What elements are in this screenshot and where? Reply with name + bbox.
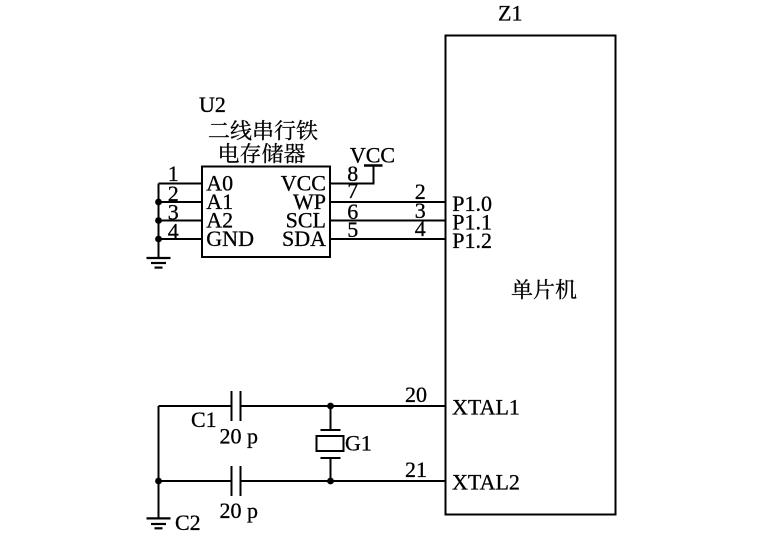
crystal G1 — [317, 430, 344, 458]
ground bottom left — [147, 518, 171, 528]
wire left vertical C1-C2 to ground — [158, 406, 160, 518]
svg-text:P1.2: P1.2 — [452, 228, 492, 253]
wire U2 pin1 A0 — [159, 183, 203, 185]
wire XTAL2 right segment — [242, 480, 446, 482]
svg-text:GND: GND — [206, 226, 254, 251]
junction XTAL1 / G1 — [327, 403, 334, 410]
capacitor C2 — [232, 466, 241, 496]
svg-text:20 p: 20 p — [220, 423, 259, 448]
junction pin3 bus — [155, 217, 162, 224]
VCC riser — [373, 166, 375, 185]
wire G1 top lead — [330, 406, 332, 430]
svg-text:4: 4 — [415, 216, 426, 241]
svg-text:5: 5 — [347, 217, 358, 242]
svg-text:21: 21 — [405, 457, 427, 482]
VCC bar — [364, 164, 383, 167]
wire XTAL2 left segment — [159, 480, 231, 482]
svg-text:SDA: SDA — [282, 226, 326, 251]
wire pin6 to P1.1 — [330, 220, 446, 222]
wire U2 pin8 to VCC — [330, 183, 374, 185]
junction C2 left / ground — [155, 478, 162, 485]
svg-text:4: 4 — [168, 219, 179, 244]
wire U2 pin4 GND — [159, 238, 203, 240]
IC U2 (FRAM) body — [202, 167, 330, 258]
junction pin2 bus — [155, 199, 162, 206]
label 单片机 (microcontroller) — [512, 279, 577, 299]
ground under U2 — [147, 258, 171, 268]
label 二线串行铁 (two-wire serial ferroelectric) — [209, 120, 317, 140]
IC Z1 (MCU) body — [446, 36, 616, 515]
junction pin4 bus — [155, 236, 162, 243]
svg-text:20 p: 20 p — [220, 498, 259, 523]
svg-text:C1: C1 — [191, 407, 217, 432]
wire SCL/WP net pin7 to P1.0 — [330, 201, 446, 203]
wire left bus to ground — [158, 184, 160, 259]
label 电存储器 (memory) — [220, 143, 305, 163]
svg-text:XTAL1: XTAL1 — [452, 395, 520, 420]
wire XTAL1 right segment — [242, 405, 446, 407]
wire U2 pin3 A2 — [159, 220, 203, 222]
svg-text:20: 20 — [405, 382, 427, 407]
svg-text:XTAL2: XTAL2 — [452, 470, 520, 495]
svg-text:Z1: Z1 — [498, 1, 522, 26]
capacitor C1 — [232, 391, 241, 421]
wire U2 pin2 A1 — [159, 201, 203, 203]
svg-text:U2: U2 — [199, 92, 226, 117]
junction XTAL2 / G1 — [327, 478, 334, 485]
svg-text:C2: C2 — [175, 510, 201, 535]
svg-text:G1: G1 — [345, 431, 372, 456]
wire G1 bottom lead — [330, 458, 332, 481]
wire pin5 to P1.2 — [330, 238, 446, 240]
wire XTAL1 left segment — [159, 405, 231, 407]
